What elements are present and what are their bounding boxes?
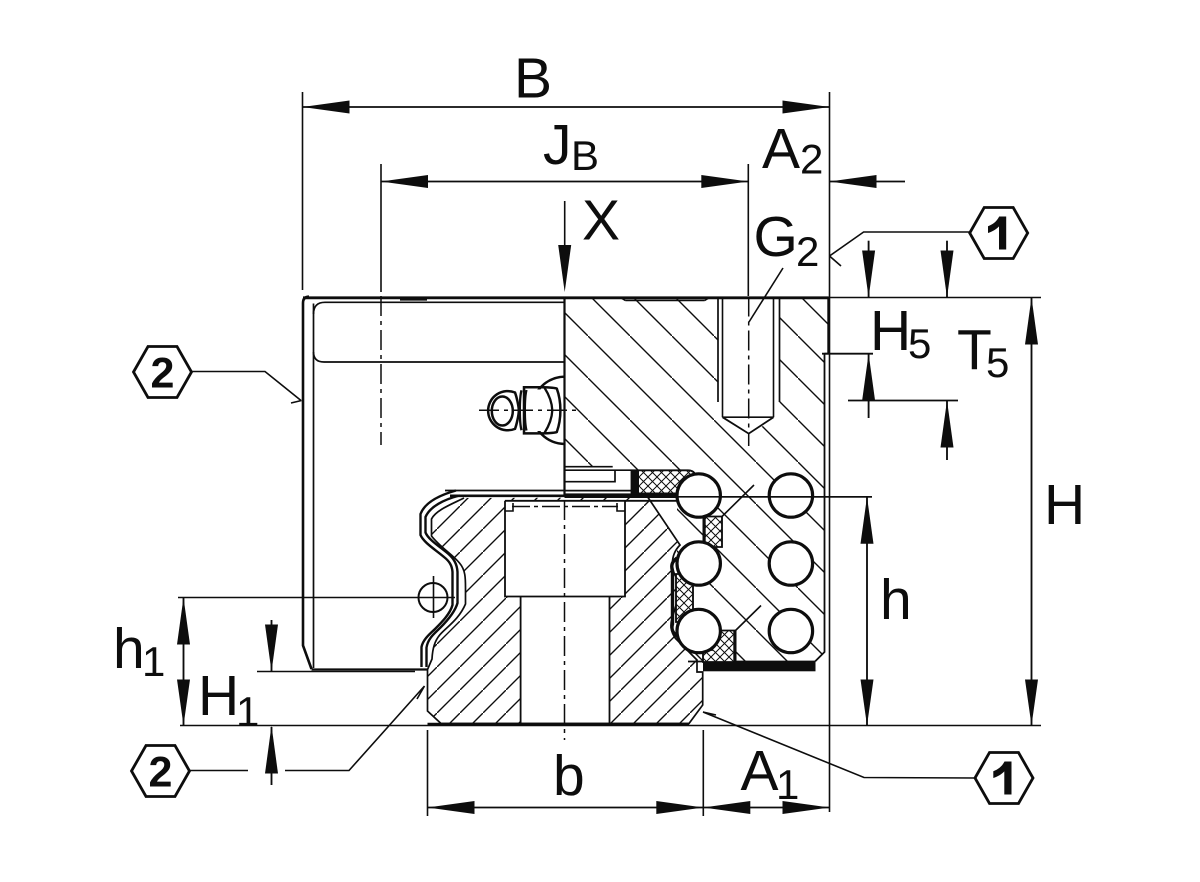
svg-text:H: H — [1044, 473, 1085, 537]
dimension JB — [381, 113, 748, 188]
svg-text:2: 2 — [796, 228, 819, 275]
rail counterbore hole — [505, 501, 625, 597]
hex facet chevron — [545, 388, 553, 433]
right edge step — [825, 353, 829, 355]
end plate inner top line — [314, 302, 565, 314]
hexagon callout 2 top left — [134, 347, 302, 404]
svg-text:b: b — [553, 744, 585, 808]
nipple centerline — [479, 409, 578, 411]
svg-text:A: A — [762, 117, 800, 181]
B extension line left — [302, 92, 304, 290]
dimension A2 — [762, 117, 905, 188]
raceway line through row1 balls — [676, 496, 872, 498]
top edge thick — [303, 296, 829, 299]
svg-text:J: J — [543, 113, 572, 177]
dimension T5 — [848, 241, 1009, 460]
grease nipple — [488, 377, 565, 444]
svg-text:5: 5 — [986, 339, 1009, 386]
carriage right edge lower — [815, 354, 825, 662]
race separator lines — [722, 485, 761, 631]
full height extension line right — [829, 92, 831, 812]
section boundary line — [563, 297, 565, 498]
svg-text:h: h — [880, 568, 912, 632]
retainer lip left of balls 2-3 — [672, 558, 678, 637]
svg-text:1: 1 — [236, 688, 259, 735]
left inner line — [313, 304, 315, 669]
bottom plane line — [180, 725, 1041, 727]
carriage bottom right edge — [688, 661, 815, 663]
svg-text:B: B — [571, 132, 599, 179]
svg-text:H: H — [870, 299, 911, 363]
wiper seal wavy profile — [421, 491, 460, 668]
thread centerline — [748, 297, 750, 447]
section arrow X — [558, 189, 620, 293]
svg-text:A: A — [741, 739, 779, 803]
label G2 with leader — [749, 205, 819, 322]
svg-text:1: 1 — [142, 638, 165, 685]
sphere front oval — [492, 397, 513, 426]
hexagon callout 1 top — [830, 208, 1028, 267]
svg-text:2: 2 — [151, 350, 175, 398]
plate lower edge above rail — [445, 490, 565, 492]
dimension H5 — [822, 241, 931, 418]
lube port circle on end plate — [419, 576, 448, 618]
svg-text:h: h — [113, 617, 145, 681]
dimension H1 — [198, 620, 415, 785]
hexagon callout 2 bottom — [132, 686, 425, 797]
dimension h — [720, 497, 912, 726]
sphere silhouette — [488, 391, 519, 430]
dome boss arc — [532, 377, 565, 444]
rail hole centerline — [564, 500, 566, 740]
svg-text:X: X — [582, 189, 620, 253]
elastomer seal patches (crosshatch) — [631, 470, 737, 662]
dimension b — [428, 730, 704, 816]
rail bottom thick line — [428, 723, 690, 726]
lube hole centerline vertical — [380, 164, 382, 292]
top recess notches — [400, 298, 709, 301]
dimension h1 — [113, 598, 455, 726]
end plate flange line — [314, 352, 565, 362]
hex nut outline — [524, 387, 560, 433]
shank white mask — [521, 390, 560, 432]
dimension B — [303, 47, 830, 114]
dimension A1 — [703, 739, 829, 814]
carriage right edge thick upper — [827, 297, 830, 354]
svg-text:2: 2 — [149, 749, 173, 797]
end plate bottom edge — [312, 668, 428, 670]
carriage sectioned body (right half) hatched — [565, 297, 829, 662]
counterbore corner steps — [505, 503, 625, 511]
thread hole G2 — [718, 297, 780, 447]
svg-text:B: B — [514, 47, 552, 111]
left outer edge thick with bottom chamfer — [303, 297, 312, 669]
patch below right of ball3 — [703, 631, 735, 663]
patch between ball1L and ball2L right side — [704, 517, 723, 548]
rail outline — [428, 498, 703, 724]
rail sectioned (hatched slash) — [428, 493, 703, 740]
bottom seal strip black — [703, 662, 816, 671]
rail through hole — [521, 597, 610, 724]
patch upper left of ball1 — [632, 470, 698, 493]
svg-text:5: 5 — [908, 320, 931, 367]
svg-text:G: G — [754, 205, 798, 269]
G2 extension line above part — [747, 164, 749, 296]
counterbore dash-dot line — [512, 506, 618, 508]
rail top surface thick line — [450, 494, 694, 497]
carriage outline edges — [303, 297, 829, 670]
groove arcs — [520, 390, 527, 431]
svg-text:H: H — [198, 664, 239, 728]
balls — [677, 474, 813, 653]
dimension H — [1025, 298, 1085, 726]
top surface extension line right — [830, 297, 1041, 299]
hexagon callout 1 bottom — [703, 712, 1033, 804]
svg-text:2: 2 — [800, 136, 823, 183]
svg-text:1: 1 — [776, 761, 799, 808]
patch left of ball2-ball3 — [676, 574, 693, 622]
recirculation step block — [565, 467, 697, 491]
